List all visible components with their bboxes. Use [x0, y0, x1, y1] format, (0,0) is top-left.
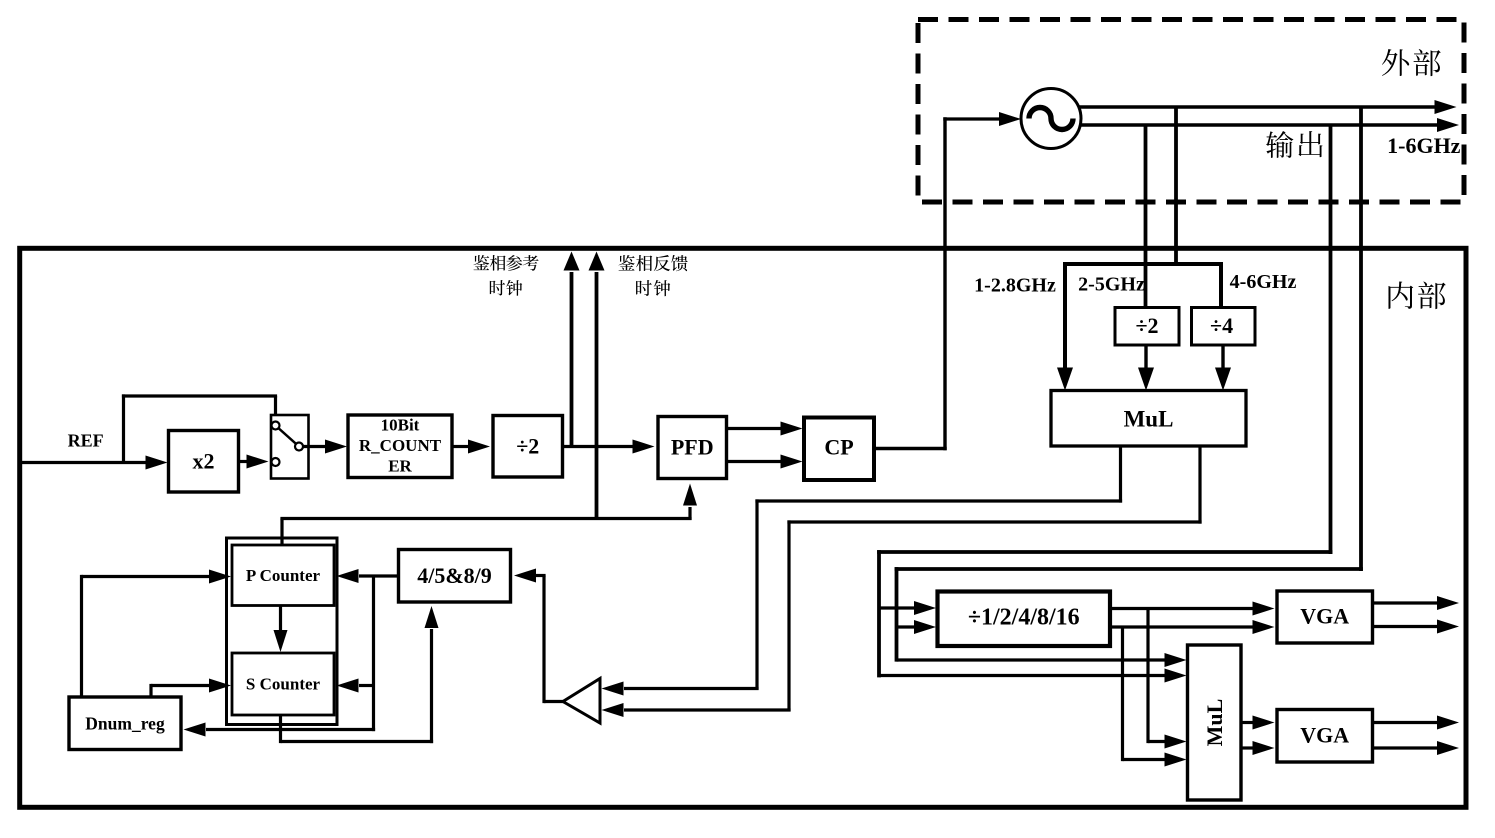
wire MuL output 2 to buffer	[602, 446, 1202, 717]
wire /2 into MuL	[1138, 345, 1154, 391]
divider /1/2/4/8/16	[938, 592, 1111, 647]
wire R_COUNTER to divider /2	[452, 440, 490, 454]
comparator PFD	[658, 417, 727, 479]
wire /4 into MuL	[1215, 345, 1231, 391]
svg-text:P Counter: P Counter	[246, 566, 321, 585]
svg-text:VGA: VGA	[1300, 604, 1349, 629]
label 鉴相反馈时钟	[619, 255, 688, 296]
label 4-6GHz	[1230, 271, 1297, 293]
label REF	[68, 430, 104, 450]
wire MuL2 output 2 to VGA2	[1241, 741, 1275, 755]
multiplier x2	[169, 431, 239, 493]
amplifier VGA2	[1277, 710, 1373, 763]
wire feedback into PFD bottom	[280, 484, 697, 547]
label 内部	[1388, 281, 1445, 309]
register Dnum_reg	[69, 697, 181, 750]
wire MuL2 output 1 to VGA2	[1241, 716, 1275, 730]
label 鉴相参考时钟	[473, 255, 538, 296]
wire reference clock up arrow	[564, 252, 580, 449]
counter S Counter	[232, 653, 334, 715]
wire S Counter bottom to prescaler	[281, 606, 439, 743]
charge pump CP	[804, 418, 874, 481]
wire 4-6GHz into divider /4	[1219, 262, 1223, 309]
svg-text:S Counter: S Counter	[246, 674, 321, 693]
divider /2 (reference)	[493, 416, 563, 478]
wire VGA1 output 2	[1373, 620, 1460, 634]
wire prescaler branch to S Counter and Dnum_reg	[184, 576, 376, 737]
svg-text:Dnum_reg: Dnum_reg	[85, 713, 165, 733]
prescaler 4/5&8/9	[399, 550, 511, 603]
amplifier VGA1	[1277, 591, 1373, 643]
dashed box 外部 (external boundary)	[918, 20, 1464, 203]
svg-text:1-6GHz: 1-6GHz	[1387, 133, 1461, 158]
svg-text:1-2.8GHz: 1-2.8GHz	[974, 274, 1056, 296]
svg-text:÷1/2/4/8/16: ÷1/2/4/8/16	[968, 605, 1080, 631]
label 外部	[1382, 49, 1441, 76]
svg-text:4/5&8/9: 4/5&8/9	[417, 563, 492, 588]
oscillator (VCO) circle with sine	[1021, 89, 1081, 149]
svg-text:÷4: ÷4	[1210, 313, 1233, 338]
label 2-5GHz	[1078, 274, 1145, 296]
wire divider to PFD	[563, 440, 655, 454]
wire divider output 2 to VGA1 and MuL2	[1110, 620, 1275, 767]
divider /4 (RF)	[1192, 308, 1256, 346]
svg-text:CP: CP	[824, 435, 853, 460]
wire drop 2-5GHz to divider /2	[1144, 125, 1148, 309]
wire P Counter to S Counter	[274, 606, 288, 653]
svg-text:2-5GHz: 2-5GHz	[1078, 274, 1145, 296]
wire Dnum_reg to S Counter	[151, 679, 231, 699]
svg-text:÷2: ÷2	[1135, 313, 1158, 338]
svg-text:PFD: PFD	[671, 435, 714, 460]
wire feedback clock up arrow	[589, 252, 605, 521]
wire PFD to CP upper	[727, 422, 803, 436]
wire VGA1 output 1	[1373, 596, 1460, 610]
oscillator top output wire 1-6GHz	[1078, 100, 1457, 114]
oscillator bottom output wire	[1079, 118, 1459, 132]
inner box 内部 (internal chip boundary)	[20, 248, 1466, 807]
buffer triangle	[563, 679, 600, 724]
wire long drop D to divider chain (right inner)	[895, 107, 1363, 667]
svg-text:REF: REF	[68, 430, 104, 450]
wire VGA2 output 2	[1373, 741, 1460, 755]
wire Dnum_reg to P Counter	[82, 570, 232, 699]
wire x2 to switch	[239, 455, 269, 469]
counter P Counter	[232, 545, 334, 606]
switch SPDT	[271, 415, 309, 479]
svg-text:4-6GHz: 4-6GHz	[1230, 271, 1297, 293]
svg-text:ER: ER	[388, 457, 412, 476]
wire 1-2.8GHz arrow into MuL	[1057, 262, 1073, 391]
svg-text:x2: x2	[193, 449, 215, 474]
wire buffer to 4/5&8/9	[514, 569, 564, 704]
node REF input wire	[18, 456, 168, 470]
wire divider output 1 to VGA1 and MuL2	[1110, 602, 1275, 749]
label 1-6GHz	[1387, 133, 1461, 158]
svg-text:÷2: ÷2	[516, 434, 539, 459]
wire long drop C to divider chain (right outer)	[877, 125, 1332, 683]
mixer MuL vertical	[1188, 645, 1242, 800]
wire prescaler to P Counter	[337, 569, 399, 583]
wire drop to 1-2.8GHz / 4-6GHz split	[1063, 107, 1223, 266]
counters container box	[227, 538, 338, 725]
counter R_COUNTER 10Bit	[348, 415, 452, 478]
svg-text:R_COUNT: R_COUNT	[359, 436, 442, 455]
wire CP output to oscillator riser	[874, 117, 947, 450]
wire VGA2 output 1	[1373, 716, 1460, 730]
wire MuL output 1 to buffer	[602, 446, 1123, 696]
wire PFD to CP lower	[727, 455, 803, 469]
wire switch to R_COUNTER	[304, 440, 348, 454]
svg-text:VGA: VGA	[1300, 722, 1349, 747]
label 1-2.8GHz	[974, 274, 1056, 296]
svg-text:MuL: MuL	[1124, 407, 1174, 432]
wire REF feedback bypass to switch	[122, 394, 277, 462]
svg-text:MuL: MuL	[1202, 699, 1227, 747]
label 输出	[1266, 131, 1323, 158]
svg-text:10Bit: 10Bit	[381, 416, 420, 435]
mixer MuL	[1051, 391, 1246, 447]
wire into oscillator with arrow	[943, 112, 1021, 126]
divider /2 (RF)	[1115, 308, 1179, 346]
